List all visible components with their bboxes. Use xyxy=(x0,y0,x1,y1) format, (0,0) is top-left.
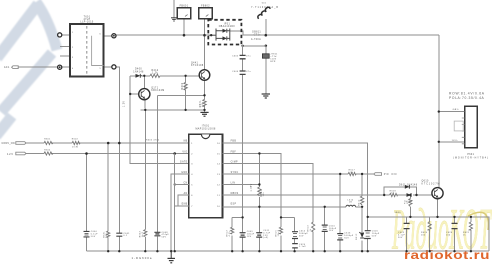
wire thermistor drop xyxy=(409,195,411,217)
node y110-Q441gnd xyxy=(203,109,205,111)
svg-text:ROW:81.4V/0.6A: ROW:81.4V/0.6A xyxy=(449,91,485,95)
svg-text:1.2V: 1.2V xyxy=(124,101,126,107)
wire rail x340.2 xyxy=(339,174,341,251)
capacitor C624 x294.6 lower xyxy=(292,244,298,248)
svg-text:KRC102M: KRC102M xyxy=(151,90,164,92)
svg-text:(MONITOR-HYTB4): (MONITOR-HYTB4) xyxy=(453,157,489,159)
wire rail x86.5 from 12V to bottom bus xyxy=(86,154,88,252)
svg-text:(uF): (uF) xyxy=(263,237,268,239)
wire rail x242 down xyxy=(242,45,244,252)
wire box1 to main xyxy=(183,19,185,36)
capacitor C606 on rail 242 xyxy=(240,71,246,74)
svg-text:104: 104 xyxy=(446,234,451,236)
svg-text:47u: 47u xyxy=(246,56,251,58)
wire box2 down to Q441 collector xyxy=(204,19,206,70)
wire right rail down to P601 and Q610 xyxy=(438,35,440,187)
node main-box2 xyxy=(203,34,206,37)
wire transformer bottom-left terminal to input tag xyxy=(18,66,57,68)
svg-text:1k: 1k xyxy=(350,172,353,174)
svg-text:P601: P601 xyxy=(467,154,474,156)
svg-text:15: 15 xyxy=(217,154,221,156)
svg-text:FB602: FB602 xyxy=(201,5,210,7)
transistor Q171 xyxy=(139,89,150,100)
wire transformer left stub pin3 xyxy=(60,55,70,57)
svg-text:14: 14 xyxy=(217,164,221,166)
connector tag CONV_ON xyxy=(16,142,26,145)
node pin11-384 xyxy=(383,194,385,196)
svg-text:10k: 10k xyxy=(263,192,265,196)
svg-text:1.5k: 1.5k xyxy=(202,102,204,107)
svg-text:R613: R613 xyxy=(359,199,361,206)
wire pin6 rail xyxy=(178,195,189,206)
IC pin numbers left xyxy=(191,143,193,208)
node link-left xyxy=(241,45,243,47)
node y95-emitterQ441 xyxy=(203,94,205,96)
resistor R617 on PD-ON row xyxy=(348,172,356,175)
svg-text:1k: 1k xyxy=(310,228,312,231)
thermistor TH611 xyxy=(409,199,412,207)
svg-text:R601: R601 xyxy=(44,139,51,141)
resistor R604 xyxy=(44,152,53,155)
resistor R612 vertical x232.2 xyxy=(231,227,234,234)
wire rail x294.6 (C614/C624 column) xyxy=(294,217,296,251)
svg-text:0.1: 0.1 xyxy=(123,235,127,237)
connector tag input left xyxy=(12,66,19,69)
resistor J7811 box on rail 265.8 xyxy=(265,46,267,94)
capacitor C620 x367.7 xyxy=(365,231,371,239)
wire Q171 base stub xyxy=(130,93,139,95)
capacitor C614 x294.6 xyxy=(292,232,298,239)
capacitor C626 x454.5 xyxy=(452,223,458,228)
svg-text:GATE: GATE xyxy=(180,160,188,163)
svg-text:KTC3198: KTC3198 xyxy=(191,65,204,67)
transistor Q610 xyxy=(432,188,443,199)
cluster junction dots xyxy=(129,75,206,112)
svg-text:47u: 47u xyxy=(246,71,251,73)
svg-text:ENB: ENB xyxy=(182,204,188,206)
zener D613 x362.1 xyxy=(359,232,365,239)
ground below J7811 xyxy=(262,94,270,98)
svg-text:10k: 10k xyxy=(184,85,186,89)
opto diode1 xyxy=(223,29,227,33)
svg-text:16V: 16V xyxy=(247,236,252,238)
terminal bottom-left (dotted) xyxy=(58,65,62,69)
wire pin12 LIN xyxy=(223,184,260,186)
wire jumper to main xyxy=(265,19,267,35)
node opto input xyxy=(210,34,212,36)
wire row y110 xyxy=(141,109,205,111)
svg-text:12: 12 xyxy=(217,185,221,187)
wire pin5 rail (joins 12V wire above) xyxy=(175,154,189,252)
svg-text:1B: 1B xyxy=(349,202,353,204)
wire transformer right-bottom to terminal xyxy=(104,66,112,68)
wire rail x259.2 xyxy=(258,154,260,252)
wire Q441 emitter chain xyxy=(204,80,206,112)
node rowA-R409 xyxy=(184,75,186,77)
wire rail x119 continues to bottom cap xyxy=(118,143,120,251)
node PDON-340 xyxy=(339,173,341,175)
watermark blue logo top-left xyxy=(0,2,57,136)
svg-text:50V: 50V xyxy=(162,237,167,239)
wire P601 pin6 xyxy=(439,141,465,143)
node midbus dots xyxy=(241,216,243,218)
cat tail curl of T xyxy=(468,212,488,230)
optocoupler dashed box PC601 xyxy=(208,20,241,45)
wire vertical x185.6 with R xyxy=(185,76,187,110)
node 12V-x174 xyxy=(173,152,176,155)
node 12V-x86 xyxy=(85,152,88,155)
IC pin labels right xyxy=(231,141,239,206)
wire Q610 emitter xyxy=(437,199,439,217)
wire rail x324.7 xyxy=(324,207,326,251)
transistor Q441 xyxy=(199,70,210,81)
wire transformer bottom-left stub xyxy=(62,66,70,68)
svg-text:PD ON: PD ON xyxy=(384,172,398,176)
node pin5-rail xyxy=(174,183,176,185)
wire pin16 FBB to right rail xyxy=(223,143,368,251)
wire pin15 FBF xyxy=(223,154,282,252)
node pin11-410 xyxy=(409,194,411,196)
resistor R601 xyxy=(44,141,53,144)
svg-text:CN: CN xyxy=(183,182,187,184)
resistor R620 vertical x429.7 xyxy=(428,222,431,230)
svg-text:CT1+: CT1+ xyxy=(254,34,262,36)
node base Q171 xyxy=(129,93,131,95)
svg-text:FB601: FB601 xyxy=(180,5,189,7)
svg-text:AC1: AC1 xyxy=(4,66,10,69)
svg-text:C605: C605 xyxy=(232,56,239,58)
wire pin13 PD-ON row xyxy=(223,173,374,175)
resistor R621 vertical x470.9 xyxy=(469,222,472,230)
resistor R615 vertical x281 xyxy=(279,227,282,234)
diode D400 xyxy=(133,69,144,78)
svg-text:C606: C606 xyxy=(232,71,239,73)
IC pin numbers right xyxy=(217,143,221,208)
svg-text:CONV_ON: CONV_ON xyxy=(2,142,15,145)
wire top ground rail xyxy=(173,0,175,18)
resistor R613 vertical on x362.1 xyxy=(360,196,363,205)
wire rail x362.1 xyxy=(361,174,363,251)
node ESP-362 xyxy=(361,206,363,208)
wire pin4 GND rail xyxy=(171,174,189,251)
node pin11-416 xyxy=(415,194,417,196)
svg-text:1k/J: 1k/J xyxy=(142,232,144,237)
svg-text:GND: GND xyxy=(181,172,187,174)
svg-text:601: 601 xyxy=(262,3,267,5)
IC left pin stubs xyxy=(171,154,189,252)
svg-text:50V: 50V xyxy=(398,237,403,239)
opto internal xyxy=(208,29,230,41)
node FBF-259 xyxy=(258,152,260,154)
diode D611 on bypass branch xyxy=(405,185,410,189)
capacitor C610 x324.7 xyxy=(322,225,328,231)
svg-text:11: 11 xyxy=(217,195,220,197)
svg-text:10k: 10k xyxy=(421,234,425,236)
wire Q171 collector up xyxy=(143,76,145,89)
wire pin7 xyxy=(175,205,189,207)
resistor R614 vertical x313.2 xyxy=(312,222,315,232)
svg-text:1-DG600a: 1-DG600a xyxy=(132,256,153,260)
svg-text:R605 470k: R605 470k xyxy=(146,140,159,142)
IC pin labels left xyxy=(180,141,188,206)
svg-text:1.2k: 1.2k xyxy=(152,72,158,74)
svg-text:16V: 16V xyxy=(329,230,334,232)
resistor R412 horizontal xyxy=(150,74,160,77)
resistor R642 vertical x145.3 xyxy=(144,230,147,237)
wire terminal to rail corner down to CONV wire xyxy=(116,67,119,143)
bus junction dots xyxy=(107,250,472,252)
svg-text:10: 10 xyxy=(391,193,395,195)
resistor R602 xyxy=(72,141,80,144)
svg-text:471: 471 xyxy=(404,203,409,205)
wire row y95.3 xyxy=(157,94,204,96)
svg-text:50V: 50V xyxy=(344,237,349,239)
svg-text:1.35V: 1.35V xyxy=(251,183,253,191)
wire C611 link xyxy=(243,45,266,47)
svg-text:10: 10 xyxy=(217,206,221,208)
resistor R409 vertical xyxy=(184,82,187,90)
svg-text:D613: D613 xyxy=(356,233,358,240)
svg-text:LLP-1010: LLP-1010 xyxy=(80,21,93,23)
svg-text:100: 100 xyxy=(106,233,108,238)
wire mid-bus bracket B xyxy=(281,216,295,218)
svg-text:12V: 12V xyxy=(7,152,14,156)
wire mid-bus bracket A xyxy=(232,216,242,218)
svg-text:radiokot.ru: radiokot.ru xyxy=(404,250,490,262)
svg-text:ESP: ESP xyxy=(231,204,237,206)
ground below Q441 xyxy=(200,112,208,116)
svg-text:50V: 50V xyxy=(299,235,304,237)
node rowA-Q171coll xyxy=(143,75,145,77)
wire pin10 ESP row xyxy=(223,206,363,208)
ground below bus at x171 xyxy=(168,251,176,263)
wire bottom-right rails xyxy=(406,217,408,251)
svg-text:Q610: Q610 xyxy=(422,181,430,183)
svg-text:R602: R602 xyxy=(72,138,79,140)
svg-text:VIO: VIO xyxy=(182,151,187,153)
node main-box1 xyxy=(183,34,186,37)
watermark yellow RadioKOT xyxy=(392,197,493,262)
svg-text:50V: 50V xyxy=(91,236,96,238)
connector tag PD-ON xyxy=(374,173,382,176)
capacitor C625 x406.6 xyxy=(404,223,410,228)
svg-text:POLA:70.35/0.4A: POLA:70.35/0.4A xyxy=(449,96,485,100)
svg-text:1B60: 1B60 xyxy=(395,212,402,214)
node ESP-324 xyxy=(324,206,326,208)
box FB602 xyxy=(199,8,212,19)
diode D612 on pin11 row xyxy=(407,193,412,197)
svg-text:NB: NB xyxy=(184,141,188,143)
wire rowA diode/resistor xyxy=(130,75,199,77)
svg-text:4.7k: 4.7k xyxy=(229,231,231,236)
svg-text:BPR: BPR xyxy=(270,61,275,63)
resistor R471 vertical xyxy=(203,99,206,106)
transformer T601 xyxy=(70,16,104,76)
wire CONV_ON row xyxy=(26,142,189,144)
svg-text:I7601: I7601 xyxy=(202,126,210,128)
resistor R618 on pin11 row xyxy=(390,193,398,196)
wire rail x130 down to IC pin3 xyxy=(130,76,189,164)
capacitor C611 x259.2 xyxy=(256,233,262,237)
wire Q171 emitter rail down xyxy=(144,100,146,252)
node y110-emitter xyxy=(144,109,146,111)
svg-text:MAP101ILSI08: MAP101ILSI08 xyxy=(195,128,216,131)
svg-text:GB811: GB811 xyxy=(252,31,261,33)
capacitor C640 x86.5 xyxy=(84,231,90,237)
svg-text:10k/J: 10k/J xyxy=(278,230,280,237)
capacitor C616 x340.2 xyxy=(337,234,343,240)
node main-C611 xyxy=(265,34,268,37)
wire transformer top-left terminal xyxy=(62,34,70,36)
right-network junction dots xyxy=(241,110,472,218)
wire transformer right-top to terminal xyxy=(104,35,112,37)
wire rail x157.4 down xyxy=(156,95,158,251)
node LIN-259 xyxy=(258,183,260,185)
svg-text:1k: 1k xyxy=(463,234,466,236)
wire rail x232.2 lower xyxy=(231,217,233,251)
terminal top-right (dotted) xyxy=(112,34,116,38)
wire main from optobox to right corner xyxy=(230,31,439,35)
resistor R641 vertical x108.2 xyxy=(107,231,110,237)
svg-text:A-700A: A-700A xyxy=(251,38,261,41)
capacitor C605 on rail 242 xyxy=(240,55,246,58)
svg-text:1N4148: 1N4148 xyxy=(133,71,144,73)
svg-text:R604: R604 xyxy=(44,149,51,151)
svg-text:1/1W: 1/1W xyxy=(72,147,78,149)
node CONV-x108 xyxy=(107,142,110,145)
wire pin11 DBNS to Q610 base xyxy=(223,194,433,196)
capacitor C609 x242.6 xyxy=(240,233,246,237)
terminal top-left (open) xyxy=(58,33,62,37)
wire 12V row xyxy=(26,153,189,155)
wire mid-bus right run xyxy=(368,217,489,251)
svg-text:GB1↓: GB1↓ xyxy=(453,108,460,111)
node sub-C611 xyxy=(265,45,268,48)
resistor R611 vertical on rail x259.4 xyxy=(258,187,261,196)
svg-text:NBA2101DF: NBA2101DF xyxy=(219,25,236,28)
box FB601 xyxy=(177,8,191,19)
inductor L610 xyxy=(346,205,356,207)
wire D611 bypass branch xyxy=(384,187,416,195)
svg-text:16: 16 xyxy=(217,143,221,145)
svg-text:13: 13 xyxy=(217,174,221,176)
node PDON-362 xyxy=(361,173,363,175)
capacitor C641 x119.3 xyxy=(116,233,122,236)
svg-text:1.1uF: 1.1uF xyxy=(299,246,306,248)
wire rail x108 CONV to bus xyxy=(107,143,109,251)
opto diode2 xyxy=(223,36,227,40)
junction dots xyxy=(85,34,206,186)
svg-text:AN: AN xyxy=(184,192,188,195)
svg-text:1KO-: 1KO- xyxy=(452,140,459,142)
wire pin14 CIMP xyxy=(223,164,314,252)
svg-text:KTC1027M: KTC1027M xyxy=(422,183,441,185)
node y110-R409 xyxy=(184,109,186,111)
terminal bottom-right (open) xyxy=(112,65,116,69)
svg-text:D611 1N4148: D611 1N4148 xyxy=(399,185,418,187)
connector tag 12V xyxy=(16,152,26,155)
wire P601 pin1 xyxy=(439,111,465,113)
node CONV-x119 xyxy=(118,142,121,145)
ground top (near box1) xyxy=(171,18,177,21)
capacitor C648 x157.4 xyxy=(154,232,160,236)
node ESP-259 xyxy=(258,206,260,208)
svg-text:50V: 50V xyxy=(372,235,377,237)
node P601 top xyxy=(438,110,440,112)
wire transformer left stub pin2 xyxy=(60,46,70,48)
wire main horizontal from transformer to optobox xyxy=(116,34,208,36)
wire ground bus xyxy=(87,250,490,252)
